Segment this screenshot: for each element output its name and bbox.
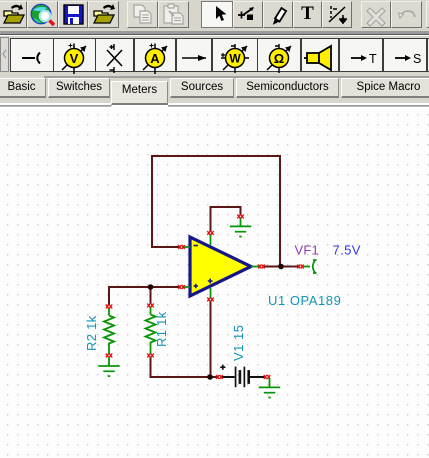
wire non-inverting input: [109, 286, 179, 288]
partial button right: [427, 38, 429, 72]
button partial right: [426, 1, 429, 28]
pin marker R1 bottom: [147, 354, 153, 358]
op-amp U1: [183, 235, 260, 298]
wire output: [263, 266, 298, 268]
wire feedback top: [152, 155, 280, 157]
node junction output: [278, 264, 284, 270]
button current probe arrow: [176, 38, 212, 72]
label 7.5V: [333, 243, 361, 258]
label R1 1k: [154, 311, 169, 347]
svg-text:VF1: VF1: [295, 243, 319, 258]
label V1 15: [231, 325, 246, 361]
button dashed arrow: [322, 1, 352, 28]
pin marker inverting input: [178, 245, 184, 249]
pin marker bottom supply: [207, 298, 213, 302]
tab Spice Macros: [341, 78, 429, 98]
svg-text:S: S: [413, 52, 421, 66]
label R2 1k: [84, 315, 99, 351]
resistor R2: [104, 308, 114, 354]
button pointer (selected): [201, 1, 233, 28]
svg-text:A: A: [150, 51, 160, 66]
svg-text:V: V: [70, 51, 79, 66]
pin marker top supply: [207, 231, 213, 235]
label VF1: [295, 243, 319, 258]
pin marker non-inverting input: [178, 285, 184, 289]
tab Basic: [0, 78, 46, 98]
pin marker R2 top: [106, 305, 112, 309]
button ohmmeter: [257, 38, 301, 72]
button current-arrow-meter: [95, 38, 134, 72]
wire R1 top drop: [150, 286, 152, 304]
button wattmeter: [212, 38, 258, 72]
button voltage-pin: [10, 38, 54, 72]
label U1 OPA189: [268, 293, 341, 308]
pin marker output stub: [258, 265, 264, 269]
pin marker battery right: [264, 375, 270, 379]
wire R1 bottom to battery row: [151, 357, 211, 377]
button wire tool: [233, 1, 263, 28]
button pen: [263, 1, 293, 28]
tab Semiconductors: [236, 78, 339, 98]
voltage pin probe VF1: [303, 260, 317, 273]
wire to inverting input: [151, 246, 179, 248]
button text T: [293, 1, 322, 28]
toolbar scroll line: [44, 76, 429, 78]
pin marker battery left: [216, 375, 222, 379]
wire op-amp top supply: [211, 207, 241, 231]
tab Switches: [48, 78, 110, 98]
svg-text:R2 1k: R2 1k: [84, 315, 99, 351]
pin marker probe wire end: [297, 265, 303, 269]
button open: [88, 1, 119, 28]
pin marker ground top: [237, 215, 243, 219]
svg-text:V1 15: V1 15: [231, 325, 246, 361]
wire feedback right vertical: [279, 155, 281, 267]
button paste (disabled): [158, 1, 189, 28]
wire op-amp bottom supply down: [210, 301, 212, 378]
node junction R1 top: [148, 284, 154, 290]
left scroll grip: [0, 37, 9, 72]
button save: [58, 1, 88, 28]
button open-web: [27, 1, 58, 28]
svg-text:R1 1k: R1 1k: [154, 311, 169, 347]
wire R2 top drop: [108, 286, 110, 305]
tab Sources: [170, 78, 234, 98]
wire battery left: [209, 376, 218, 378]
tab Meters (selected): [111, 81, 168, 105]
ground right of battery: [259, 378, 280, 398]
wire feedback left vertical: [151, 155, 153, 247]
svg-text:T: T: [369, 52, 377, 66]
button undo (disabled): [391, 1, 422, 28]
button speaker: [301, 38, 339, 72]
battery V1: [220, 365, 265, 388]
ground top (op-amp V-): [230, 218, 251, 237]
svg-text:W: W: [229, 51, 241, 65]
button copy (disabled): [127, 1, 158, 28]
button to-S: [383, 38, 427, 72]
pin marker R1 top: [147, 304, 153, 308]
svg-text:Ω: Ω: [274, 51, 284, 66]
pin marker R2 bottom: [106, 354, 112, 358]
resistor R1: [146, 307, 156, 354]
node junction battery left: [207, 374, 213, 380]
button ammeter: [134, 38, 176, 72]
button open-last: [0, 1, 27, 28]
button to-T: [339, 38, 383, 72]
svg-text:U1 OPA189: U1 OPA189: [268, 293, 341, 308]
button delete X (disabled): [361, 1, 391, 28]
ground under R2: [98, 357, 119, 377]
button voltmeter: [53, 38, 96, 72]
svg-text:7.5V: 7.5V: [333, 243, 361, 258]
